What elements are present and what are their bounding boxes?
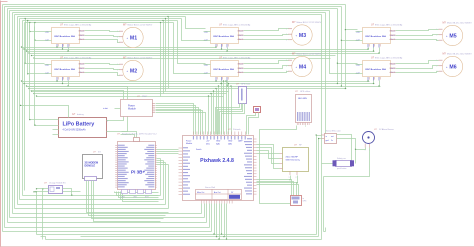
motor M6 pins [439, 59, 443, 61]
svg-text:2: 2 [117, 37, 118, 39]
junction dots left bus [21, 46, 22, 47]
Raspberry Pi 3B+ U8 [118, 142, 156, 190]
svg-text:2: 2 [437, 66, 438, 68]
wire ESC U3 to motor phase A [244, 29, 289, 31]
svg-text:4 Cell 14.8V 5200mAh: 4 Cell 14.8V 5200mAh [63, 129, 87, 132]
wire left bus verticals [2, 5, 4, 232]
ESC U5 ESC Brushless 30A [363, 28, 391, 44]
power module right pins [152, 103, 155, 105]
svg-text:GPS u-blox: GPS u-blox [300, 91, 310, 93]
wire power module top to bus [31, 91, 124, 100]
svg-text:S3B Telemetry: S3B Telemetry [286, 159, 301, 162]
wire ESC1 -BAT feed [35, 27, 45, 41]
Pixhawk servo pins comb [201, 200, 203, 204]
svg-text:to batt: to batt [103, 107, 108, 110]
wire column bus verticals [160, 23, 162, 97]
wire top bus [13, 12, 326, 14]
svg-text:ESC Logic-BEC 2-6S (30 A): ESC Logic-BEC 2-6S (30 A) [375, 56, 403, 59]
svg-text:1(MP: 1(MP [238, 141, 243, 143]
svg-text:NEO-M8N: NEO-M8N [298, 98, 307, 100]
wire ESC U2 to motor phase A [85, 64, 120, 65]
telemetry left pins [280, 152, 283, 154]
svg-text:3(A): 3(A) [216, 143, 220, 146]
svg-text:Pixhawk 2.4.8: Pixhawk 2.4.8 [200, 158, 234, 164]
wire mid bus [22, 47, 217, 49]
wire ESC U2 to motor phase B [85, 69, 120, 70]
wire ESC U6 to motor phase B [396, 66, 439, 69]
motor M5 [442, 25, 462, 45]
wire ESC3 signal drops [216, 47, 218, 49]
wire top bus [25, 22, 174, 24]
wire switch left [322, 163, 333, 165]
svg-text:DONGLE: DONGLE [85, 165, 96, 168]
wire ESC U5 to motor phase B [396, 35, 439, 36]
svg-text:M5: M5 [449, 34, 456, 40]
wire top bus [10, 10, 330, 12]
wire ESC U6 to motor phase C [396, 72, 439, 73]
wire bottom bus nested [23, 195, 161, 197]
wire Pi notch to power rail [121, 135, 135, 138]
wire ESC6 +BAT feed [337, 9, 339, 84]
svg-text:2: 2 [437, 35, 438, 37]
buzzer LS1 [363, 132, 375, 144]
motor M1 [123, 27, 143, 47]
wire ESC5 signal drops [368, 48, 370, 50]
motor M5 pins [439, 28, 443, 30]
wire left feeder verticals [25, 19, 27, 64]
sheet frame top-left tick [1, 1, 8, 3]
Pi bottom headers [122, 190, 128, 194]
compass mast U10 [239, 87, 247, 104]
wire ESC4 +BAT feed [178, 21, 206, 64]
Pixhawk servo rail table [196, 190, 242, 200]
wire ESC4 -BAT feed [174, 23, 206, 74]
wire top bus [15, 14, 322, 16]
wire ESC6 -BAT feed [330, 11, 358, 74]
wire ESC U5 to motor phase A [396, 30, 439, 31]
svg-text:ESC Brushless 30A: ESC Brushless 30A [55, 35, 76, 38]
svg-text:ESC Logic-BEC 2-6S (30 A): ESC Logic-BEC 2-6S (30 A) [64, 23, 92, 26]
svg-text:M4: M4 [299, 65, 306, 71]
wire ESC1 signal drops [57, 47, 59, 49]
modem wires down [87, 181, 169, 213]
telemetry U12 [283, 148, 309, 172]
wire ESC2 signal drops [57, 81, 59, 82]
wire ESC1 +BAT feed [30, 25, 45, 32]
Pi right pin labels [155, 145, 157, 147]
svg-text:ESC Logic-BEC 2-6S (30 A): ESC Logic-BEC 2-6S (30 A) [223, 56, 251, 59]
motor M2 [123, 60, 143, 80]
ESC U6 ESC Brushless 30A [363, 61, 391, 77]
svg-text:Motor BLDC 2212 920KV: Motor BLDC 2212 920KV [297, 21, 322, 24]
power module left pin [115, 108, 121, 110]
wire telemetry to Pixhawk [257, 153, 280, 155]
svg-text:1: 1 [286, 29, 287, 31]
wire Pi to Pixhawk serial [157, 149, 179, 151]
svg-text:2: 2 [296, 177, 297, 179]
svg-text:in: in [326, 136, 327, 138]
ESC U2 bottom pins [56, 77, 58, 81]
svg-text:Servo ESC conn: Servo ESC conn [326, 131, 341, 133]
svg-text:Module: Module [128, 108, 137, 111]
svg-text:Xbee 900HP: Xbee 900HP [286, 157, 299, 159]
GPS NEO-M8N U11 [296, 95, 312, 123]
wire telemetry down to joins [290, 176, 292, 180]
wire bottom right risers [316, 136, 318, 235]
wire top bus [18, 16, 186, 18]
svg-text:Motor BLDC 2212 920KV: Motor BLDC 2212 920KV [297, 52, 322, 55]
svg-text:Servo Rail: Servo Rail [205, 186, 216, 189]
svg-text:M2: M2 [130, 69, 137, 75]
wire Pi bottom fanout [115, 192, 159, 193]
svg-text:M3: M3 [299, 33, 306, 39]
svg-text:Motor BLDC 2212 920KV: Motor BLDC 2212 920KV [128, 23, 153, 26]
svg-text:Main Out: Main Out [197, 191, 205, 194]
svg-text:LiPo Battery: LiPo Battery [63, 122, 95, 128]
wire long riser A [325, 13, 327, 134]
compass mast wires down [216, 104, 240, 135]
wire module U13 right loops [337, 135, 352, 161]
svg-text:M6: M6 [449, 65, 456, 71]
svg-text:ESC Brushless 30A: ESC Brushless 30A [214, 35, 235, 38]
modem bottom connector [85, 177, 97, 181]
wire ESC3 -BAT feed [182, 19, 206, 41]
svg-text:GPS mast: GPS mast [241, 83, 251, 86]
svg-text:battery: battery [77, 113, 85, 116]
wire Pixhawk to connector J2 [257, 180, 292, 196]
GPS bottom pins [296, 123, 298, 126]
wire servo staircase verticals [201, 204, 203, 214]
RC receiver U14 [49, 186, 63, 194]
wire ESC5 +BAT feed [345, 5, 347, 89]
wire top bus [23, 20, 178, 22]
svg-text:ESC Brushless 30A: ESC Brushless 30A [55, 68, 76, 71]
wire ESC U3 to motor phase C [244, 39, 289, 41]
wire top bus [8, 8, 338, 10]
svg-text:ESC Brushless 30A: ESC Brushless 30A [214, 68, 235, 71]
power module U7 [121, 100, 153, 117]
svg-text:3G: 3G [98, 152, 101, 154]
wire bottom far lines [37, 234, 317, 236]
wire mid-bus right ends down [380, 49, 382, 51]
connector J1 [254, 107, 261, 113]
RC receiver wires [37, 188, 49, 190]
svg-text:1: 1 [289, 177, 290, 179]
3G modem U15 [83, 155, 103, 179]
battery G1 LiPo [59, 118, 107, 138]
svg-text:push button: push button [337, 167, 346, 170]
wire ESC4 signal drops [216, 81, 218, 82]
wire Pi right verticals to bottom bus [160, 159, 162, 196]
Pixhawk top pins [193, 132, 195, 136]
svg-text:ESC Logic-BEC 2-6S (30 A): ESC Logic-BEC 2-6S (30 A) [375, 23, 403, 26]
Pixhawk right pins [253, 138, 257, 140]
svg-text:2: 2 [286, 66, 287, 68]
motor M3 [292, 25, 312, 45]
ESC U1 ESC Brushless 30A [52, 28, 80, 44]
wire servo extra drops [214, 204, 216, 235]
wire receiver left drop [36, 192, 38, 235]
wire top bus [5, 6, 342, 8]
telemetry bottom pins [289, 171, 291, 175]
motor M2 pins [119, 63, 123, 65]
ESC U3 bottom pins [215, 44, 217, 48]
motor M1 pins [119, 30, 123, 32]
wire Pi right drops [157, 158, 161, 160]
svg-text:2(M): 2(M) [228, 144, 232, 146]
svg-text:Motor BLDC 2212 920KV: Motor BLDC 2212 920KV [447, 21, 472, 24]
svg-text:3: 3 [286, 40, 287, 42]
svg-text:Motor BLDC 2212 920KV: Motor BLDC 2212 920KV [128, 56, 153, 59]
wire ESC U4 to motor phase A [244, 61, 289, 64]
Pixhawk left pins [179, 147, 183, 149]
svg-text:ESC Logic-BEC 2-6S (30 A): ESC Logic-BEC 2-6S (30 A) [223, 23, 251, 26]
wire ESC U1 to motor phase C [85, 40, 120, 43]
ESC U6 bottom pins [367, 77, 369, 81]
wire ESC U6 to motor phase A [396, 61, 439, 64]
svg-text:Pixhawk: Pixhawk [233, 129, 240, 131]
wire ESC U5 to motor phase C [396, 40, 439, 41]
wire ESC U1 to motor phase B [85, 36, 120, 37]
ESC U2 ESC Brushless 30A [52, 61, 80, 77]
svg-text:PM07: PM07 [142, 96, 148, 98]
svg-text:ESC Brushless 30A: ESC Brushless 30A [366, 68, 387, 71]
svg-text:GND: GND [216, 141, 221, 143]
sheet frame bottom edge [1, 246, 474, 247]
Pi top notch [134, 138, 140, 142]
wire ESC U1 to motor phase A [85, 31, 120, 32]
svg-text:Pi 3B+: Pi 3B+ [131, 170, 145, 175]
ESC U4 bottom pins [215, 77, 217, 81]
wire battery- to power module [107, 117, 128, 132]
wire bottom left hook [41, 237, 46, 240]
buzzer pins [364, 144, 366, 148]
wire riser join [324, 231, 326, 233]
ESC U3 ESC Brushless 30A [211, 28, 239, 44]
wire ESC2 -BAT feed [28, 73, 45, 75]
ESC U4 ESC Brushless 30A [211, 61, 239, 77]
svg-text:gnd: gnd [326, 140, 329, 142]
svg-text:Safety sw: Safety sw [337, 157, 346, 160]
wire ESC5 -BAT feed [341, 7, 343, 87]
wire ESC6 signal drops [368, 81, 370, 82]
Pixhawk 2.4.8 U9 [183, 136, 254, 201]
wire ESC3 +BAT feed [186, 17, 206, 29]
wire top bus [3, 4, 346, 6]
svg-text:Aux Out: Aux Out [214, 191, 221, 194]
svg-text:5V Alarm Buzzer: 5V Alarm Buzzer [379, 128, 394, 131]
wire GPS long loop [260, 126, 297, 204]
wire power module to Pixhawk staircase [156, 104, 194, 135]
svg-text:Module: Module [186, 143, 192, 145]
ESC U5 bottom pins [367, 44, 369, 48]
wire top bus [20, 18, 182, 20]
safety switch S1 [336, 161, 352, 167]
connector J1 wires [247, 113, 256, 135]
svg-text:4(V): 4(V) [206, 144, 210, 146]
wire ESC U2 to motor phase C [85, 73, 120, 76]
svg-text:-: - [107, 131, 108, 134]
wire battery aux line [21, 106, 69, 118]
Pi left pin labels [115, 145, 117, 147]
motor M4 pins [288, 59, 292, 61]
wire bus to Pixhawk drops [208, 97, 210, 135]
module U13 pins [321, 134, 324, 136]
ESC U1 bottom pins [56, 44, 58, 48]
motor M3 pins [288, 28, 292, 30]
wire ESC U4 to motor phase B [244, 66, 289, 69]
wire GPS stub [305, 126, 307, 127]
GPS inner pin comb [297, 112, 298, 121]
wire module U13 to risers [317, 135, 322, 137]
wire row2 bus [22, 81, 370, 83]
svg-text:2: 2 [117, 70, 118, 72]
motor M6 [442, 56, 462, 76]
wire receiver left drop 2 [42, 189, 44, 240]
svg-text:GND: GND [228, 141, 233, 143]
wire ESC U4 to motor phase C [244, 72, 289, 73]
svg-text:M1: M1 [130, 36, 137, 42]
wire battery+ to power module [107, 117, 124, 121]
connector J2 GPS plug [291, 196, 302, 206]
wire ESC2 +BAT feed [26, 63, 45, 65]
wire ESC U3 to motor phase B [244, 35, 289, 36]
wire battery left to bus [30, 119, 59, 121]
wire buzzer to switch loop [356, 148, 366, 150]
svg-text:Raspberry Pi 3 B+ (GPIO header: Raspberry Pi 3 B+ (GPIO header) V1.2 [122, 134, 158, 136]
svg-text:Motor BLDC 2212 920KV: Motor BLDC 2212 920KV [447, 52, 472, 55]
sheet frame left edge [0, 1, 2, 247]
svg-text:5v: 5v [331, 140, 333, 142]
battery pins left [53, 129, 59, 131]
svg-text:ESC Brushless 30A: ESC Brushless 30A [366, 35, 387, 38]
svg-text:Switch: Switch [196, 148, 202, 151]
svg-text:ESC Logic-BEC 2-6S (30 A): ESC Logic-BEC 2-6S (30 A) [64, 56, 92, 59]
svg-text:Orange R110X RX: Orange R110X RX [49, 183, 66, 185]
module U13 [325, 134, 337, 144]
motor M4 [292, 56, 312, 76]
